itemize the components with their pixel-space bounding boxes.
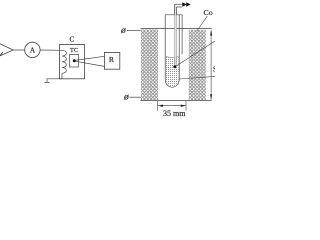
svg-text:S: S	[213, 66, 215, 74]
svg-text:ø: ø	[120, 26, 126, 36]
svg-text:R: R	[109, 55, 115, 64]
svg-text:ø: ø	[123, 93, 129, 103]
svg-text:C: C	[69, 35, 74, 43]
svg-text:TC: TC	[70, 47, 78, 54]
svg-text:Co: Co	[204, 8, 213, 17]
svg-text:A: A	[30, 46, 36, 55]
svg-text:35 mm: 35 mm	[163, 109, 186, 118]
